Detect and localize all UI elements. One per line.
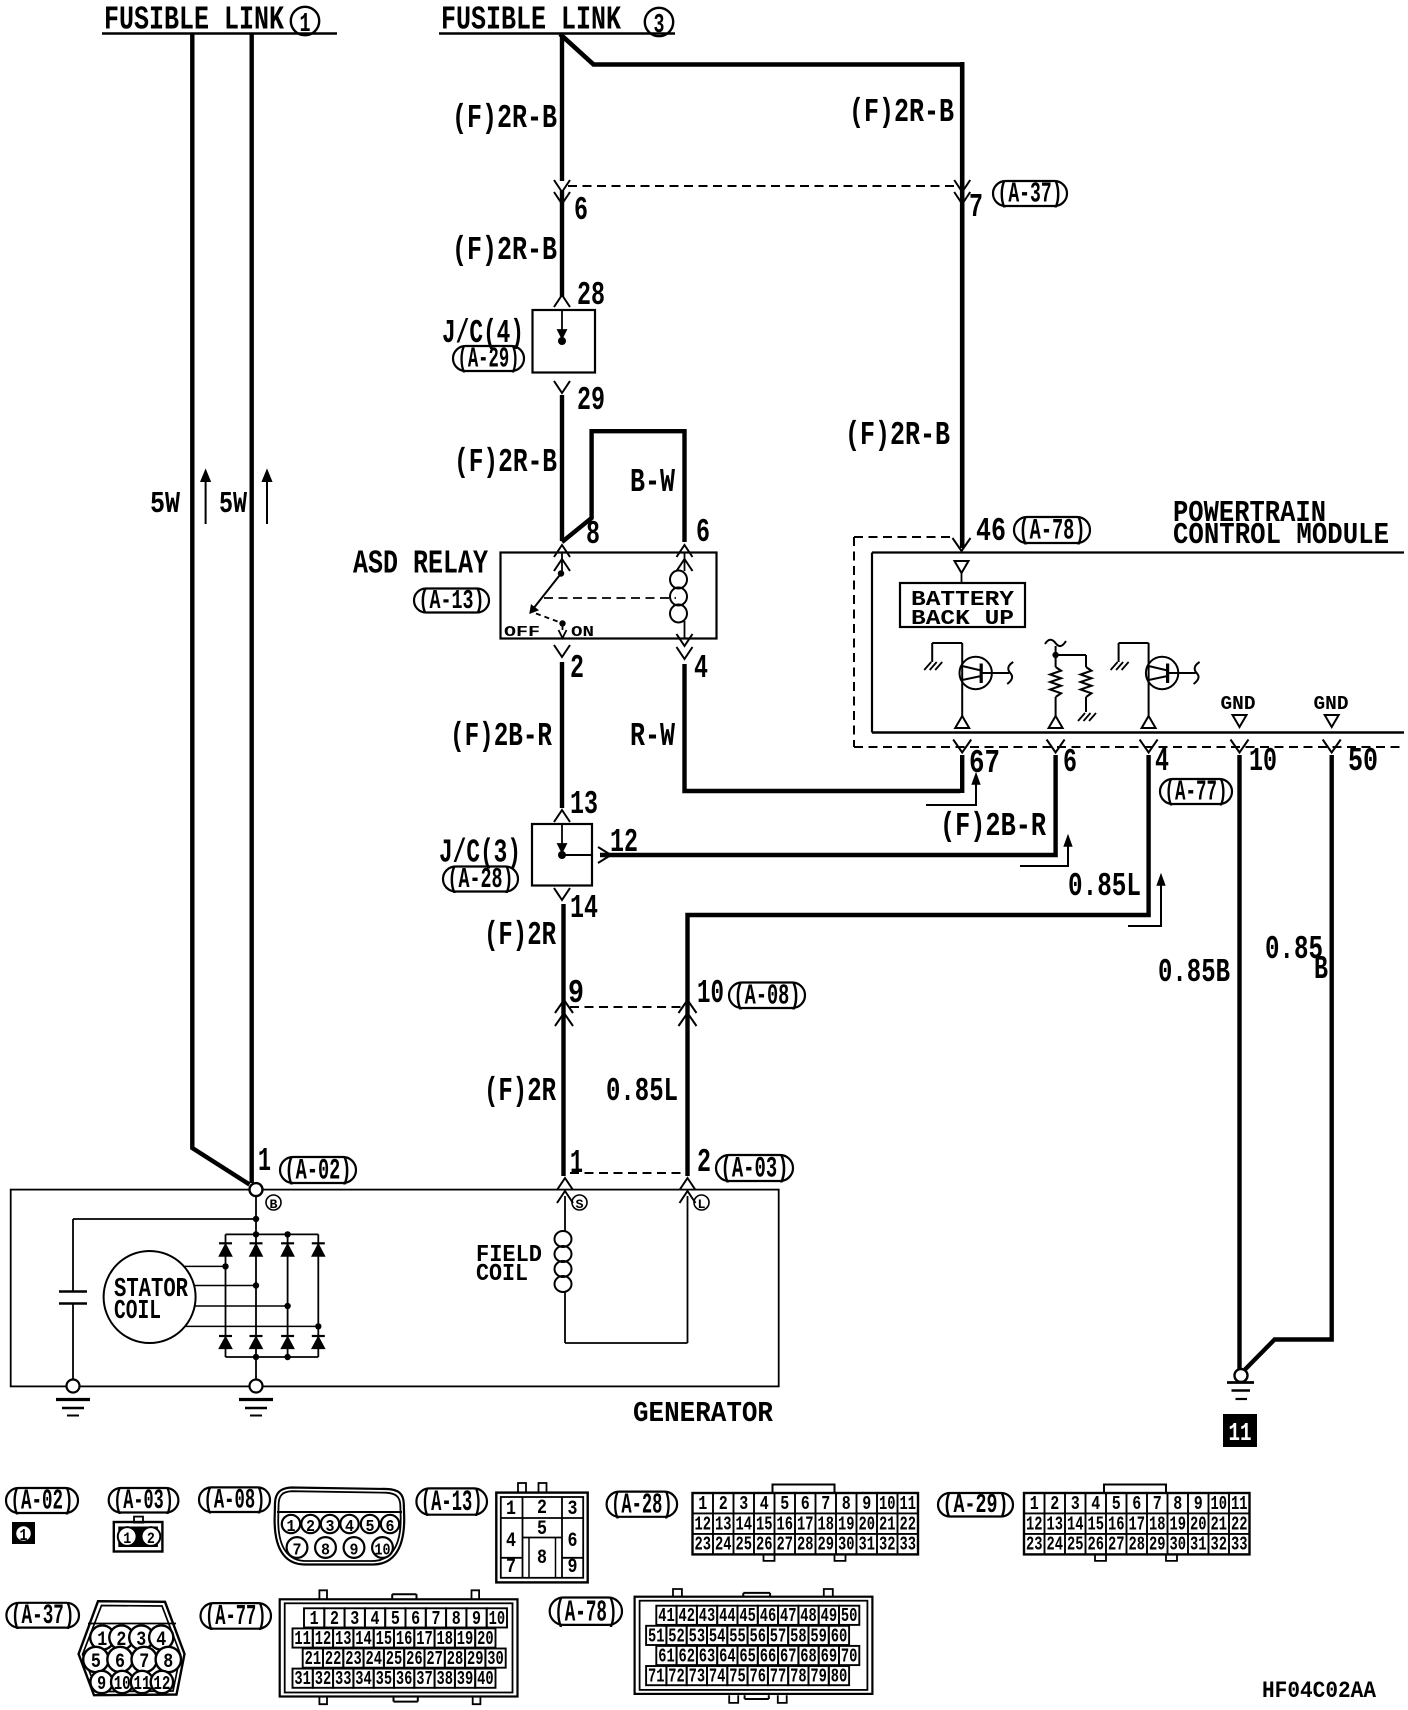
svg-text:6: 6 bbox=[801, 1493, 810, 1515]
svg-text:3: 3 bbox=[568, 1498, 578, 1521]
svg-text:56: 56 bbox=[750, 1625, 767, 1647]
svg-text:6: 6 bbox=[1063, 744, 1077, 781]
svg-text:(A-08): (A-08) bbox=[734, 980, 801, 1013]
svg-text:1: 1 bbox=[570, 1145, 583, 1182]
svg-text:23: 23 bbox=[345, 1648, 362, 1670]
svg-text:64: 64 bbox=[719, 1645, 736, 1667]
svg-text:10: 10 bbox=[489, 1608, 506, 1630]
svg-text:10: 10 bbox=[879, 1493, 896, 1515]
svg-text:1: 1 bbox=[506, 1498, 516, 1521]
svg-text:11: 11 bbox=[1231, 1493, 1248, 1515]
svg-text:8: 8 bbox=[842, 1493, 851, 1515]
svg-text:21: 21 bbox=[305, 1648, 322, 1670]
svg-text:58: 58 bbox=[790, 1625, 807, 1647]
svg-text:2: 2 bbox=[719, 1493, 728, 1515]
svg-text:15: 15 bbox=[756, 1513, 773, 1535]
svg-text:(A-29): (A-29) bbox=[458, 344, 520, 376]
svg-text:23: 23 bbox=[695, 1534, 712, 1556]
svg-text:19: 19 bbox=[457, 1628, 474, 1650]
svg-text:5: 5 bbox=[1112, 1493, 1121, 1515]
svg-text:8: 8 bbox=[452, 1608, 461, 1630]
svg-text:13: 13 bbox=[335, 1628, 352, 1650]
svg-text:21: 21 bbox=[879, 1513, 896, 1535]
svg-text:L: L bbox=[698, 1197, 706, 1212]
svg-text:(F)2R-B: (F)2R-B bbox=[454, 444, 557, 481]
svg-text:35: 35 bbox=[376, 1668, 393, 1690]
svg-text:1: 1 bbox=[123, 1530, 131, 1548]
svg-text:3: 3 bbox=[350, 1608, 359, 1630]
svg-text:68: 68 bbox=[800, 1645, 817, 1667]
svg-text:46: 46 bbox=[760, 1605, 777, 1627]
svg-text:(F)2R: (F)2R bbox=[484, 917, 556, 954]
svg-text:33: 33 bbox=[335, 1668, 352, 1690]
svg-text:(A-29): (A-29) bbox=[943, 1490, 1009, 1520]
svg-text:14: 14 bbox=[736, 1513, 753, 1535]
svg-text:29: 29 bbox=[467, 1648, 484, 1670]
svg-text:33: 33 bbox=[1231, 1534, 1248, 1556]
svg-text:75: 75 bbox=[729, 1666, 746, 1688]
svg-text:50: 50 bbox=[1348, 743, 1378, 780]
svg-text:32: 32 bbox=[315, 1668, 332, 1690]
svg-text:(A-28): (A-28) bbox=[611, 1488, 673, 1521]
svg-text:43: 43 bbox=[699, 1605, 716, 1627]
svg-text:(F)2R-B: (F)2R-B bbox=[452, 232, 557, 269]
svg-text:26: 26 bbox=[756, 1534, 773, 1556]
svg-text:32: 32 bbox=[1211, 1534, 1228, 1556]
svg-text:8: 8 bbox=[586, 516, 600, 553]
svg-text:10: 10 bbox=[375, 1542, 391, 1561]
svg-text:(F)2R-B: (F)2R-B bbox=[849, 94, 954, 131]
svg-text:72: 72 bbox=[668, 1666, 685, 1688]
svg-text:12: 12 bbox=[1026, 1513, 1043, 1535]
svg-text:11: 11 bbox=[134, 1673, 151, 1695]
svg-text:30: 30 bbox=[487, 1648, 504, 1670]
svg-text:11: 11 bbox=[1229, 1418, 1252, 1448]
svg-text:16: 16 bbox=[777, 1513, 794, 1535]
svg-text:24: 24 bbox=[1047, 1534, 1064, 1556]
svg-text:COIL: COIL bbox=[476, 1261, 528, 1288]
svg-text:74: 74 bbox=[709, 1666, 726, 1688]
svg-text:6: 6 bbox=[696, 514, 710, 551]
svg-text:0.85B: 0.85B bbox=[1158, 954, 1230, 991]
svg-text:4: 4 bbox=[760, 1493, 769, 1515]
svg-text:11: 11 bbox=[900, 1493, 917, 1515]
svg-text:6: 6 bbox=[411, 1608, 420, 1630]
svg-text:4: 4 bbox=[1091, 1493, 1100, 1515]
svg-text:2: 2 bbox=[537, 1497, 547, 1520]
svg-text:66: 66 bbox=[760, 1645, 777, 1667]
svg-text:10: 10 bbox=[1249, 743, 1277, 780]
svg-text:10: 10 bbox=[114, 1673, 131, 1695]
svg-text:62: 62 bbox=[679, 1645, 696, 1667]
svg-text:ON: ON bbox=[571, 625, 594, 641]
svg-text:3: 3 bbox=[326, 1518, 335, 1537]
svg-text:22: 22 bbox=[325, 1648, 342, 1670]
svg-text:9: 9 bbox=[862, 1493, 871, 1515]
svg-text:32: 32 bbox=[879, 1534, 896, 1556]
svg-text:76: 76 bbox=[750, 1666, 767, 1688]
svg-text:31: 31 bbox=[294, 1668, 311, 1690]
svg-text:B: B bbox=[1314, 951, 1328, 988]
svg-text:59: 59 bbox=[810, 1625, 827, 1647]
svg-text:61: 61 bbox=[658, 1645, 675, 1667]
svg-text:19: 19 bbox=[1170, 1513, 1187, 1535]
svg-text:30: 30 bbox=[1170, 1534, 1187, 1556]
svg-text:6: 6 bbox=[574, 192, 588, 229]
svg-text:1: 1 bbox=[287, 1518, 296, 1537]
svg-text:27: 27 bbox=[1108, 1534, 1125, 1556]
svg-text:1: 1 bbox=[1030, 1493, 1039, 1515]
svg-text:(A-02): (A-02) bbox=[11, 1486, 74, 1518]
svg-text:44: 44 bbox=[719, 1605, 736, 1627]
svg-text:5W: 5W bbox=[219, 487, 247, 522]
svg-text:0.85L: 0.85L bbox=[1068, 868, 1141, 905]
svg-text:17: 17 bbox=[416, 1628, 433, 1650]
svg-text:COIL: COIL bbox=[114, 1297, 161, 1327]
svg-text:HF04C02AA: HF04C02AA bbox=[1262, 1678, 1377, 1705]
svg-text:17: 17 bbox=[1129, 1513, 1146, 1535]
svg-text:2: 2 bbox=[697, 1144, 711, 1181]
svg-text:S: S bbox=[576, 1197, 584, 1212]
svg-text:4: 4 bbox=[345, 1518, 354, 1537]
svg-text:67: 67 bbox=[969, 745, 1000, 782]
svg-text:(F)2R-B: (F)2R-B bbox=[452, 100, 557, 137]
svg-text:78: 78 bbox=[790, 1666, 807, 1688]
svg-text:25: 25 bbox=[736, 1534, 753, 1556]
svg-text:13: 13 bbox=[1047, 1513, 1064, 1535]
svg-text:BACK UP: BACK UP bbox=[911, 608, 1014, 631]
svg-text:8: 8 bbox=[321, 1542, 330, 1561]
svg-text:8: 8 bbox=[1173, 1493, 1182, 1515]
svg-text:(A-78): (A-78) bbox=[554, 1595, 617, 1630]
svg-text:27: 27 bbox=[777, 1534, 794, 1556]
svg-text:GND: GND bbox=[1314, 693, 1349, 715]
svg-text:13: 13 bbox=[570, 786, 598, 823]
svg-text:28: 28 bbox=[447, 1648, 464, 1670]
svg-text:15: 15 bbox=[1088, 1513, 1105, 1535]
svg-text:1: 1 bbox=[300, 10, 311, 40]
svg-text:(A-28): (A-28) bbox=[448, 864, 514, 896]
svg-text:60: 60 bbox=[831, 1625, 848, 1647]
svg-text:(F)2R-B: (F)2R-B bbox=[845, 417, 950, 454]
svg-text:39: 39 bbox=[457, 1668, 474, 1690]
svg-text:18: 18 bbox=[437, 1628, 454, 1650]
svg-text:5: 5 bbox=[366, 1518, 375, 1537]
svg-text:12: 12 bbox=[695, 1513, 712, 1535]
svg-text:28: 28 bbox=[797, 1534, 814, 1556]
svg-text:5W: 5W bbox=[150, 487, 180, 522]
svg-text:6: 6 bbox=[1132, 1493, 1141, 1515]
svg-text:14: 14 bbox=[1067, 1513, 1084, 1535]
svg-text:18: 18 bbox=[818, 1513, 835, 1535]
svg-text:69: 69 bbox=[821, 1645, 838, 1667]
svg-text:27: 27 bbox=[426, 1648, 443, 1670]
svg-text:80: 80 bbox=[831, 1666, 848, 1688]
svg-text:GND: GND bbox=[1221, 693, 1256, 715]
svg-text:(A-03): (A-03) bbox=[721, 1153, 789, 1186]
svg-text:9: 9 bbox=[472, 1608, 481, 1630]
svg-text:(A-03): (A-03) bbox=[113, 1486, 174, 1517]
svg-text:65: 65 bbox=[739, 1645, 756, 1667]
svg-text:33: 33 bbox=[900, 1534, 917, 1556]
svg-text:41: 41 bbox=[658, 1605, 675, 1627]
svg-text:37: 37 bbox=[416, 1668, 433, 1690]
svg-text:16: 16 bbox=[396, 1628, 413, 1650]
svg-text:25: 25 bbox=[386, 1648, 403, 1670]
svg-text:28: 28 bbox=[1129, 1534, 1146, 1556]
svg-text:50: 50 bbox=[841, 1605, 858, 1627]
svg-text:55: 55 bbox=[729, 1625, 746, 1647]
svg-text:57: 57 bbox=[770, 1625, 787, 1647]
svg-text:2: 2 bbox=[147, 1530, 155, 1548]
svg-text:9: 9 bbox=[568, 975, 584, 1012]
svg-text:7: 7 bbox=[1153, 1493, 1162, 1515]
svg-text:GENERATOR: GENERATOR bbox=[633, 1397, 774, 1430]
svg-text:67: 67 bbox=[780, 1645, 797, 1667]
svg-text:7: 7 bbox=[506, 1556, 516, 1579]
svg-text:(F)2B-R: (F)2B-R bbox=[940, 808, 1046, 845]
svg-text:(A-78): (A-78) bbox=[1019, 515, 1086, 548]
svg-text:18: 18 bbox=[1149, 1513, 1166, 1535]
svg-text:51: 51 bbox=[648, 1625, 665, 1647]
svg-text:7: 7 bbox=[431, 1608, 440, 1630]
svg-text:5: 5 bbox=[780, 1493, 789, 1515]
svg-text:31: 31 bbox=[1190, 1534, 1207, 1556]
svg-text:4: 4 bbox=[371, 1608, 380, 1630]
svg-text:54: 54 bbox=[709, 1625, 726, 1647]
svg-text:52: 52 bbox=[668, 1625, 685, 1647]
svg-text:(A-13): (A-13) bbox=[421, 1485, 483, 1519]
svg-text:70: 70 bbox=[841, 1645, 858, 1667]
svg-text:7: 7 bbox=[821, 1493, 830, 1515]
svg-text:6: 6 bbox=[568, 1530, 578, 1553]
svg-text:8: 8 bbox=[537, 1547, 547, 1570]
svg-text:16: 16 bbox=[1108, 1513, 1125, 1535]
svg-text:12: 12 bbox=[153, 1673, 170, 1695]
svg-text:4: 4 bbox=[694, 650, 708, 687]
svg-text:4: 4 bbox=[1155, 743, 1169, 780]
svg-text:3: 3 bbox=[654, 11, 665, 41]
svg-text:CONTROL MODULE: CONTROL MODULE bbox=[1173, 518, 1389, 553]
svg-text:42: 42 bbox=[679, 1605, 696, 1627]
svg-text:22: 22 bbox=[1231, 1513, 1248, 1535]
svg-text:24: 24 bbox=[366, 1648, 383, 1670]
svg-text:3: 3 bbox=[1071, 1493, 1080, 1515]
svg-text:R-W: R-W bbox=[630, 718, 675, 755]
svg-text:19: 19 bbox=[838, 1513, 855, 1535]
svg-text:12: 12 bbox=[315, 1628, 332, 1650]
svg-text:48: 48 bbox=[800, 1605, 817, 1627]
svg-text:25: 25 bbox=[1067, 1534, 1084, 1556]
svg-text:(A-77): (A-77) bbox=[1165, 777, 1228, 809]
svg-text:(F)2R: (F)2R bbox=[484, 1073, 556, 1110]
svg-text:29: 29 bbox=[577, 382, 605, 419]
svg-text:9: 9 bbox=[568, 1556, 578, 1579]
svg-text:(A-13): (A-13) bbox=[419, 586, 485, 617]
svg-text:15: 15 bbox=[376, 1628, 393, 1650]
svg-text:3: 3 bbox=[739, 1493, 748, 1515]
svg-text:(F)2B-R: (F)2B-R bbox=[450, 718, 552, 755]
svg-text:5: 5 bbox=[391, 1608, 400, 1630]
svg-text:11: 11 bbox=[294, 1628, 311, 1650]
svg-text:10: 10 bbox=[1211, 1493, 1228, 1515]
svg-text:24: 24 bbox=[715, 1534, 732, 1556]
svg-text:5: 5 bbox=[537, 1518, 547, 1541]
svg-text:21: 21 bbox=[1211, 1513, 1228, 1535]
svg-text:2: 2 bbox=[570, 650, 584, 687]
svg-text:63: 63 bbox=[699, 1645, 716, 1667]
svg-text:23: 23 bbox=[1026, 1534, 1043, 1556]
svg-text:OFF: OFF bbox=[504, 625, 540, 641]
svg-text:9: 9 bbox=[1194, 1493, 1203, 1515]
svg-text:9: 9 bbox=[97, 1673, 106, 1695]
svg-text:31: 31 bbox=[859, 1534, 876, 1556]
svg-text:53: 53 bbox=[689, 1625, 706, 1647]
svg-text:(A-37): (A-37) bbox=[998, 179, 1063, 211]
svg-text:(A-08): (A-08) bbox=[204, 1486, 266, 1517]
svg-text:1: 1 bbox=[258, 1143, 271, 1180]
svg-text:1: 1 bbox=[310, 1608, 319, 1630]
svg-text:9: 9 bbox=[350, 1542, 359, 1561]
svg-text:2: 2 bbox=[306, 1518, 315, 1537]
svg-text:73: 73 bbox=[689, 1666, 706, 1688]
svg-text:36: 36 bbox=[396, 1668, 413, 1690]
svg-text:34: 34 bbox=[355, 1668, 372, 1690]
svg-text:(A-37): (A-37) bbox=[11, 1601, 75, 1632]
svg-text:20: 20 bbox=[859, 1513, 876, 1535]
svg-text:40: 40 bbox=[477, 1668, 494, 1690]
svg-text:B: B bbox=[270, 1197, 278, 1212]
svg-text:6: 6 bbox=[386, 1518, 395, 1537]
svg-text:26: 26 bbox=[406, 1648, 423, 1670]
svg-text:20: 20 bbox=[1190, 1513, 1207, 1535]
svg-text:29: 29 bbox=[1149, 1534, 1166, 1556]
svg-text:20: 20 bbox=[477, 1628, 494, 1650]
svg-text:1: 1 bbox=[698, 1493, 707, 1515]
svg-text:7: 7 bbox=[969, 189, 983, 226]
svg-text:17: 17 bbox=[797, 1513, 814, 1535]
svg-text:14: 14 bbox=[570, 890, 598, 927]
svg-text:26: 26 bbox=[1088, 1534, 1105, 1556]
svg-text:(A-77): (A-77) bbox=[205, 1600, 267, 1633]
svg-text:22: 22 bbox=[900, 1513, 917, 1535]
svg-text:14: 14 bbox=[355, 1628, 372, 1650]
svg-text:7: 7 bbox=[293, 1542, 302, 1561]
svg-text:30: 30 bbox=[838, 1534, 855, 1556]
svg-text:46: 46 bbox=[976, 513, 1006, 550]
svg-text:49: 49 bbox=[821, 1605, 838, 1627]
svg-text:77: 77 bbox=[770, 1666, 787, 1688]
svg-text:4: 4 bbox=[506, 1530, 516, 1553]
svg-text:10: 10 bbox=[697, 975, 724, 1012]
svg-text:ASD RELAY: ASD RELAY bbox=[353, 546, 488, 583]
svg-text:29: 29 bbox=[818, 1534, 835, 1556]
svg-text:2: 2 bbox=[1050, 1493, 1059, 1515]
svg-text:47: 47 bbox=[780, 1605, 797, 1627]
svg-text:(A-02): (A-02) bbox=[285, 1155, 352, 1188]
svg-text:79: 79 bbox=[810, 1666, 827, 1688]
svg-text:13: 13 bbox=[715, 1513, 732, 1535]
svg-text:71: 71 bbox=[648, 1666, 665, 1688]
svg-text:45: 45 bbox=[739, 1605, 756, 1627]
svg-text:B-W: B-W bbox=[630, 464, 675, 501]
svg-text:2: 2 bbox=[330, 1608, 339, 1630]
svg-text:28: 28 bbox=[577, 277, 605, 314]
svg-text:38: 38 bbox=[437, 1668, 454, 1690]
svg-text:1: 1 bbox=[20, 1527, 28, 1546]
svg-text:0.85L: 0.85L bbox=[606, 1073, 678, 1110]
